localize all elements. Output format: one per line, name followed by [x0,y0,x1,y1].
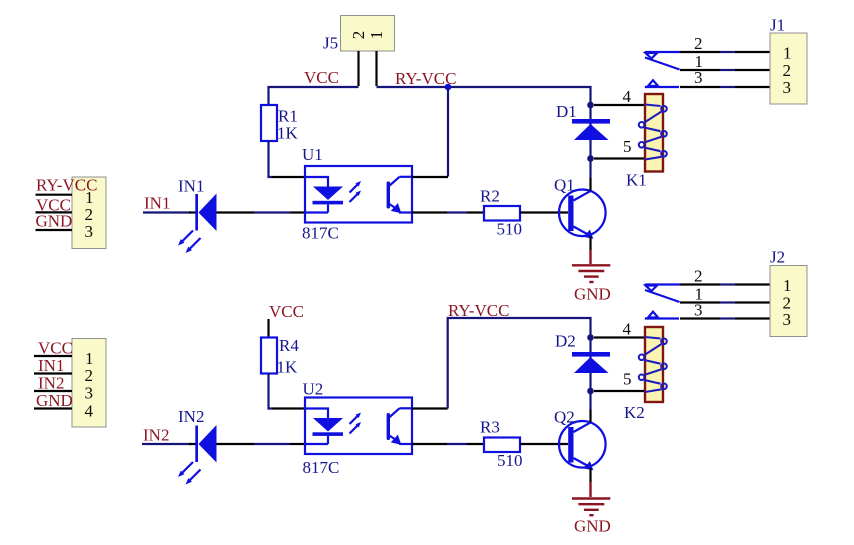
LED IN1 [178,177,254,254]
wire collector to node [589,159,591,178]
pin 1 of J2 [735,283,770,285]
svg-text:R2: R2 [480,187,500,206]
diode D2 [555,332,610,374]
svg-text:2: 2 [349,31,368,40]
node relay top ch2 [587,334,594,341]
pin 2 of K1 [680,34,720,53]
wire K2 to J2 pin2 [720,301,735,303]
wire through D2 [589,338,591,392]
resistor R4 [261,336,299,377]
relay K2 contact NO [645,312,679,319]
wire emitter to ground [589,250,591,264]
svg-text:J1: J1 [770,16,785,35]
svg-text:IN2: IN2 [178,407,204,426]
pin 1 of P1 with net RY-VCC [36,176,98,195]
wire VCC rail [269,87,359,105]
relay K1 contact NC [645,52,680,59]
svg-text:1K: 1K [277,358,299,377]
pin 3 of P1 with net GND [36,212,73,231]
svg-text:R3: R3 [480,418,500,437]
svg-text:4: 4 [623,87,632,106]
pin 2 of J2 [735,301,770,303]
svg-text:3: 3 [85,222,94,241]
node relay bottom ch2 [587,388,594,395]
svg-text:2: 2 [85,366,94,385]
svg-text:510: 510 [497,220,523,239]
svg-text:GND: GND [574,285,611,304]
svg-text:IN2: IN2 [38,374,64,393]
pin 1 of U2 [272,407,305,409]
pin 4 wire of K2 [594,320,645,339]
svg-text:3: 3 [783,78,792,97]
pin 3 of J2 [735,317,770,319]
wire IN2 input [142,443,191,445]
wire LED to U1 [254,211,290,213]
wire R3 to Q2 base [520,443,568,445]
pin 1 of K1 [680,52,720,71]
ground symbol GND1 [572,265,611,303]
wire K1 to J1 pin3 [720,86,735,88]
svg-text:1: 1 [783,276,792,295]
svg-text:J5: J5 [323,34,338,53]
wire IN1 input [143,211,191,213]
connector J5 [341,16,395,52]
pin 3 of P2 with net IN2 [34,374,72,393]
relay K2 contact arm [645,290,680,302]
svg-text:D2: D2 [555,332,576,351]
connector P2 [72,339,106,428]
wire opto collector to RY-VCC [447,87,449,177]
svg-text:2: 2 [85,205,94,224]
svg-text:J2: J2 [770,248,785,267]
wire emitter to ground ch2 [589,482,591,497]
wire U1 to R2 [447,211,467,213]
wire VCC stub ch2 [267,319,269,338]
connector J2 [770,248,807,337]
wire K2 to J2 pin1 [720,283,735,285]
svg-text:4: 4 [623,320,632,339]
wire RY-VCC rail [377,87,591,105]
optocoupler U2 [303,380,413,478]
wire K2 to J2 pin3 [720,317,735,319]
resistor R2 [480,187,522,239]
wire K1 to J1 pin2 [720,69,735,71]
pin collector Q2 [589,410,591,423]
wire R4 to U2 anode [269,374,273,409]
node relay bottom [587,155,594,162]
svg-text:GND: GND [36,391,73,410]
transistor Q1 [554,176,606,239]
pin 3 of U1 [412,211,447,213]
wire through D1 [589,105,591,159]
svg-text:3: 3 [694,68,703,87]
svg-text:VCC: VCC [269,302,304,321]
relay coil K1 [626,94,667,190]
pin emitter Q1 [589,237,591,251]
pin 3 of U2 [412,443,447,445]
wire R1 to U1 anode [269,141,273,177]
pin 3 of K2 [680,301,720,320]
pin 5 wire of K1 [594,137,645,159]
resistor R3 [480,418,523,471]
svg-text:GND: GND [574,517,611,536]
relay K2 contact NC [645,285,680,292]
relay coil K2 [624,327,667,422]
pin of R2 left [467,211,484,213]
svg-text:R4: R4 [279,336,299,355]
pin 4 of U1 [412,176,448,178]
svg-text:D1: D1 [556,102,577,121]
pin 2 of K2 [680,267,720,286]
svg-text:RY-VCC: RY-VCC [36,176,97,195]
wire collector to node ch2 [589,391,591,410]
ground symbol GND2 [572,499,611,536]
pin 1 of U1 [272,176,305,178]
pin 1 of P2 with net VCC [34,339,73,358]
pin 5 wire of K2 [594,370,645,392]
resistor R1 [261,105,299,143]
pin 1 of J5 [375,51,377,86]
svg-text:IN1: IN1 [38,356,64,375]
svg-text:IN1: IN1 [178,177,204,196]
wire K1 to J1 pin1 [720,51,735,53]
pin 4 of P2 with net GND [34,391,73,410]
pin 2 of J1 [735,69,770,71]
svg-text:1K: 1K [277,124,299,143]
wire LED to U2 [254,443,290,445]
svg-text:2: 2 [694,267,703,286]
pin 2 of P2 with net IN1 [34,356,72,375]
svg-text:U1: U1 [302,145,323,164]
pin 3 of K1 [680,68,720,87]
optocoupler U1 [302,145,412,243]
wire U2 collector to RY-VCC ch2 [448,318,591,409]
svg-text:U2: U2 [303,380,324,399]
svg-text:IN1: IN1 [144,194,170,213]
pin 1 of K2 [680,285,720,304]
svg-text:IN2: IN2 [143,426,169,445]
svg-text:VCC: VCC [304,68,339,87]
pin collector Q1 [589,178,591,191]
pin emitter Q2 [589,468,591,482]
pin 2 of U2 [290,443,305,445]
svg-text:K1: K1 [626,171,647,190]
connector J1 [770,16,807,105]
svg-text:1: 1 [367,31,386,40]
svg-text:3: 3 [694,301,703,320]
wire U2 to R3 [447,443,467,445]
pin 2 of J5 [357,51,359,86]
svg-text:817C: 817C [303,458,340,477]
connector P1 [72,177,106,249]
svg-text:4: 4 [85,401,94,420]
pin 2 of P1 with net VCC [36,195,73,214]
pin of R3 left [467,443,484,445]
svg-text:VCC: VCC [38,339,73,358]
svg-text:1: 1 [783,44,792,63]
wire R2 to Q1 base [520,211,568,213]
pin 4 wire of K1 [594,87,645,106]
svg-text:817C: 817C [302,224,339,243]
svg-text:3: 3 [783,310,792,329]
pin 4 of U2 [412,407,448,409]
relay K1 contact NO [645,80,679,87]
svg-text:3: 3 [85,384,94,403]
svg-text:2: 2 [694,34,703,53]
svg-text:RY-VCC: RY-VCC [448,301,509,320]
relay K1 contact arm [645,58,680,70]
transistor Q2 [554,408,606,471]
node RY-VCC junction [445,84,452,91]
pin 3 of J1 [735,86,770,88]
pin 1 of J1 [735,51,770,53]
svg-text:1: 1 [85,349,94,368]
diode D1 [556,102,610,140]
svg-text:K2: K2 [624,403,645,422]
node relay top [587,102,594,109]
LED IN2 [178,407,254,485]
svg-text:510: 510 [497,451,523,470]
svg-text:GND: GND [36,212,73,231]
svg-text:5: 5 [623,370,632,389]
svg-text:5: 5 [623,137,632,156]
pin 2 of U1 [290,211,305,213]
